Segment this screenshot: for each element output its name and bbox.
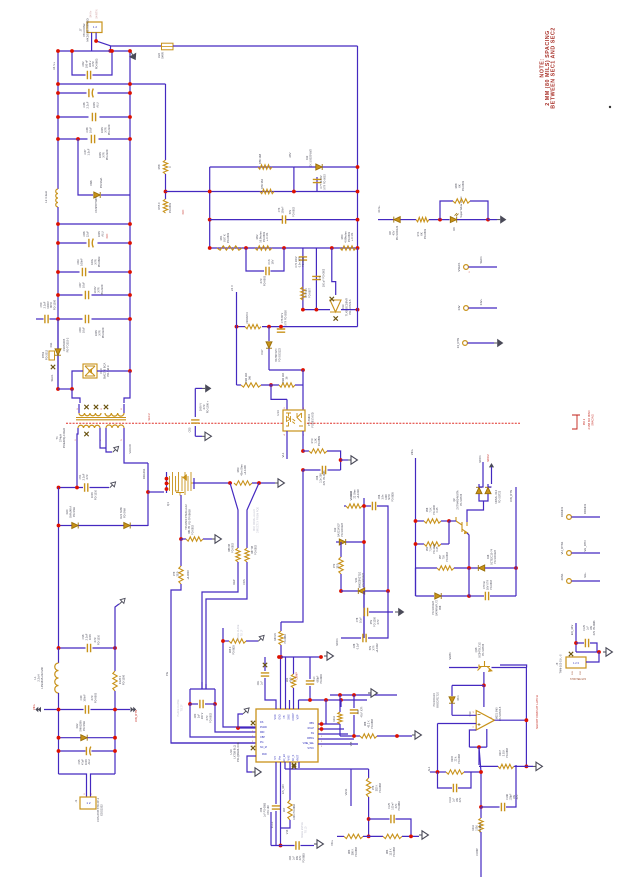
junction y568 rail: [514, 566, 518, 570]
svg-text:TMM-103-01-L-S: TMM-103-01-L-S: [559, 654, 562, 673]
wire FB pin: [285, 657, 287, 709]
junction y736 c85: [352, 734, 356, 738]
svg-text:PD-SOT23-5: PD-SOT23-5: [348, 299, 352, 315]
junction D22 right: [113, 736, 117, 740]
resistor R84 11.8K PD-0883: [383, 834, 402, 838]
wire opamp out: [495, 719, 527, 721]
ground J9: [603, 648, 612, 656]
svg-text:PD-0883: PD-0883: [317, 435, 321, 446]
resistor R126 0 PD-1206: [113, 671, 117, 691]
junction C60 left: [56, 317, 60, 321]
wire VCC2 drop: [491, 467, 493, 484]
junction J9 gnd: [597, 650, 601, 654]
wire feedback link: [469, 746, 486, 748]
wire EN_34V drop: [575, 623, 577, 652]
svg-text:24 V: 24 V: [230, 285, 234, 291]
svg-text:100V: 100V: [100, 127, 104, 133]
optocoupler U14 FOD817ASD PD-SMD4: [283, 410, 305, 431]
junction C51 left rail: [57, 486, 61, 490]
wire C84 row right: [301, 845, 315, 847]
svg-text:EN_EX: EN_EX: [283, 754, 286, 762]
svg-text:PD-0483: PD-0483: [458, 753, 461, 763]
junction VIN R98: [414, 519, 418, 523]
svg-text:PD-0603: PD-0603: [490, 579, 493, 589]
polarity mark T1 a: [84, 405, 88, 409]
svg-text:D21 SMD: D21 SMD: [119, 507, 123, 518]
svg-text:D96: D96: [89, 180, 93, 185]
wire LED row to gnd: [488, 219, 497, 221]
svg-text:PD-0883: PD-0883: [506, 747, 509, 757]
wire C36 right: [93, 647, 116, 649]
svg-text:+4-0402: +4-0402: [376, 643, 379, 653]
wire PAD to ground: [247, 756, 256, 772]
junction C46 left: [56, 91, 60, 95]
wire D10 to left: [72, 371, 83, 389]
svg-text:S#0R: S#0R: [160, 52, 164, 59]
svg-text:TPH1500 PSH9-LLX2: TPH1500 PSH9-LLX2: [184, 504, 188, 530]
wire T1 pin1 down to C51 rung: [77, 428, 78, 488]
DNP mark U10 DS: [251, 721, 255, 725]
wire DEP bus down: [202, 562, 238, 689]
svg-text:X7R: X7R: [202, 404, 206, 409]
svg-text:54 RTN: 54 RTN: [95, 9, 99, 18]
svg-text:TO 1F: TO 1F: [240, 629, 243, 636]
svg-text:47uF: 47uF: [80, 759, 84, 765]
w: [79, 413, 101, 416]
resistor R75 220R: [245, 324, 261, 328]
wire C80 left stub: [190, 703, 198, 705]
svg-text:1 2 3: 1 2 3: [573, 661, 579, 665]
svg-text:2000 V: 2000 V: [199, 403, 203, 411]
wire rung C60 left: [50, 318, 83, 320]
wire R215 left: [430, 771, 446, 773]
wire PG to U10 pin: [171, 742, 256, 744]
svg-text:D9: D9: [452, 227, 456, 231]
svg-text:R56 1K8: R56 1K8: [258, 153, 262, 164]
junction RCLP: [320, 727, 324, 731]
svg-text:PD-1210: PD-1210: [96, 634, 100, 645]
svg-text:X7R PD-0808: X7R PD-0808: [284, 310, 287, 326]
wire to D13 ref: [332, 248, 336, 295]
junction C46 right: [128, 91, 132, 95]
DNP mark C81: [263, 663, 267, 667]
wire LED row d: [457, 219, 488, 221]
DNP mark D11: [51, 365, 55, 369]
junction y309 b: [315, 308, 319, 312]
junction C66 left: [56, 241, 60, 245]
capacitor C118 1uF 16V X7R: [453, 784, 456, 792]
wire EN_EX stub: [284, 762, 286, 769]
wire J9 pin to gnd: [586, 652, 599, 662]
junction C63 right: [128, 270, 132, 274]
svg-text:VIN+: VIN+: [330, 840, 334, 846]
diode D96 PD-SMA: [94, 192, 100, 198]
wire R97 left: [416, 567, 438, 569]
junction C47 left: [56, 137, 60, 141]
junction rung1 left: [56, 49, 60, 53]
svg-text:PD-0603: PD-0603: [262, 231, 266, 242]
svg-text:C36: C36: [81, 634, 85, 639]
wire C80 box top: [190, 688, 215, 690]
shunt reference D13 TL431BCDBVR PD-SOT23-5: [330, 300, 341, 312]
wire Y-cap bottom: [194, 426, 196, 436]
svg-text:R55 0: R55 0: [157, 202, 161, 209]
junction VIN R90: [414, 542, 418, 546]
junction y657 left: [277, 655, 281, 659]
svg-text:RPRG: RPRG: [307, 737, 314, 740]
wire rail to D10: [97, 370, 130, 372]
wire Q1 drain right: [193, 482, 232, 484]
junction y385 mid: [269, 383, 273, 387]
junction y248 left: [208, 246, 212, 250]
wire in+ vertical: [437, 724, 439, 773]
svg-text:X7R: X7R: [85, 474, 89, 479]
wire C80 to U10 CBP: [215, 704, 256, 732]
junction C67 left: [56, 293, 60, 297]
svg-text:LX758 9LQ: LX758 9LQ: [232, 745, 236, 759]
w: [78, 425, 100, 428]
junction R215 right: [479, 770, 483, 774]
svg-text:TL431BCDBVR: TL431BCDBVR: [344, 298, 348, 316]
svg-text:PD-0220: PD-0220: [101, 327, 105, 338]
wire y695 line: [330, 694, 397, 696]
capacitor C98 3.9n 100V MPO PD-0805: [372, 502, 375, 510]
resistor R62 16.9kohm PD-0603: [255, 246, 272, 250]
svg-text:100V: 100V: [98, 152, 102, 158]
wire rung C47 left: [58, 138, 88, 140]
svg-text:PD-0883: PD-0883: [398, 801, 401, 811]
junction rung2 rail: [128, 82, 132, 86]
svg-text:X7R: X7R: [97, 330, 101, 335]
wire y248 line: [210, 247, 358, 249]
capacitor C38 0.1uF 50V X7R: [363, 634, 366, 642]
resistor R98 7.5K PD-1206: [424, 519, 441, 523]
svg-text:PD-2512: PD-2512: [44, 349, 48, 360]
svg-text:PD-0883: PD-0883: [479, 823, 482, 833]
junction C35 right: [113, 749, 117, 753]
wire drop to top rung: [110, 46, 112, 51]
wire ladder left rail upper: [57, 51, 59, 189]
capacitor C88 2.2n 25V X7R PD-0883: [322, 466, 325, 474]
wire ladder left rail lower: [57, 207, 59, 389]
wire FB upper: [280, 622, 282, 631]
wire R68 bypass left: [440, 201, 453, 220]
wire ladder rung 34V top: [58, 50, 130, 52]
svg-text:34 V+: 34 V+: [377, 205, 381, 213]
svg-text:COMP: COMP: [475, 848, 479, 856]
wire J9 top: [576, 651, 599, 653]
svg-text:NC_S: NC_S: [292, 754, 295, 761]
wire 24V vertical: [236, 292, 238, 385]
svg-text:Q1: Q1: [166, 502, 170, 506]
inductor L1 2.2uH LPE3815-222MR: [55, 663, 59, 693]
wire R90 right: [441, 543, 449, 545]
junction R79 R81: [179, 537, 183, 541]
ground U10 PAD: [252, 768, 261, 776]
junction Vss gnd row: [279, 844, 283, 848]
wire C59 stub left: [36, 318, 44, 320]
wire right rail lower: [357, 248, 359, 327]
wire R90 left: [416, 543, 425, 545]
svg-text:2.2uF: 2.2uF: [85, 101, 89, 108]
svg-text:C47: C47: [83, 149, 87, 154]
wire feedback up: [469, 730, 476, 747]
DNP mark D13 top: [330, 297, 334, 301]
junction rung2 left: [56, 82, 60, 86]
wire C188 right up: [506, 765, 516, 807]
svg-text:38.9: 38.9: [176, 571, 179, 576]
wire rung C66 left: [58, 242, 87, 244]
varistor U22 fuse box: [162, 43, 174, 50]
svg-text:PD-SOD123: PD-SOD123: [278, 347, 281, 362]
wire DRAIN1 vertical: [147, 463, 149, 526]
wire VIN rung right: [91, 709, 131, 711]
wire Q2 emitter down: [467, 533, 469, 568]
wire x326 down: [325, 700, 327, 724]
svg-text:HYST: HYST: [297, 754, 300, 761]
wire y736 right: [377, 735, 412, 737]
junction FB y657: [279, 655, 283, 659]
wire branch to arrow: [238, 714, 243, 728]
svg-text:100V: 100V: [88, 634, 92, 640]
diode D21 SMD PD-SMA: [124, 523, 130, 529]
junction R63 right: [257, 481, 261, 485]
capacitor C62 100nF X7R PD-0603: [87, 71, 90, 79]
page dot: [609, 106, 611, 108]
svg-text:SEC1: SEC1: [50, 374, 54, 382]
svg-text:R80 2K: R80 2K: [274, 633, 277, 641]
resistor R61 8.87K PD-0603: [217, 246, 242, 250]
transistor Q16 BC847BLT1G PD-SOT23: [478, 661, 492, 671]
svg-text:16V: 16V: [270, 259, 274, 264]
svg-text:2 MM ISO MISO: 2 MM ISO MISO: [587, 410, 591, 429]
wire VIN+ rail q2: [415, 458, 417, 596]
svg-text:AL1: AL1: [427, 766, 431, 771]
wire VHS1 drop: [350, 769, 352, 806]
svg-text:100nF: 100nF: [79, 258, 83, 266]
diode D14a BAT54 PD-SOT23: [476, 487, 482, 493]
wire C1N box right: [271, 248, 285, 271]
wire R218 lower: [339, 724, 341, 736]
wire base node left: [452, 684, 484, 686]
junction divider right: [409, 835, 413, 839]
wire C179 right down: [396, 819, 412, 836]
wire node down: [478, 747, 480, 765]
capacitor C85 47uF X7R: [350, 710, 358, 713]
svg-text:TO 2F: TO 2F: [180, 704, 183, 712]
wire y385 a: [237, 384, 242, 386]
capacitor C35 47uF 100V ALU: [86, 747, 90, 756]
resistor R72 38.9: [339, 557, 343, 574]
wire D20 left: [59, 525, 72, 527]
svg-text:C49: C49: [79, 695, 83, 700]
svg-text:VSP: VSP: [297, 714, 300, 719]
wire to transformer pin top-left: [72, 389, 80, 403]
svg-text:PD-SOT23: PD-SOT23: [482, 643, 485, 656]
wire rung2 34V to R58 branch: [58, 83, 166, 85]
net arrow U10 left: [241, 706, 251, 716]
wire lower left rail a: [58, 488, 60, 649]
net chevron VIN+: [35, 707, 41, 713]
isolation boundary red dashed line PRI/SEC: [66, 422, 520, 424]
wire tp VH+ stub: [571, 580, 600, 582]
svg-text:R216: R216: [333, 715, 336, 721]
wire to R81: [181, 538, 186, 540]
wire C1N box left: [246, 248, 264, 271]
wire y370 link: [269, 369, 303, 371]
junction rung224 left: [56, 222, 60, 226]
svg-text:DRAIN1: DRAIN1: [142, 468, 146, 479]
svg-text:D8: D8: [388, 231, 392, 235]
wire D14 bottoms join: [479, 494, 488, 501]
svg-text:PD-2220: PD-2220: [107, 124, 111, 135]
wire R63 to gnd: [252, 482, 275, 484]
junction x210 y192: [208, 190, 212, 194]
diode D22 SMAJ58A PD-SMA: [81, 735, 87, 741]
wire tp VH_RTN stub: [571, 552, 600, 554]
wire R72 down: [340, 574, 342, 591]
ground y657: [324, 652, 333, 660]
svg-text:100v: 100v: [90, 258, 94, 264]
svg-text:VHB1: VHB1: [448, 652, 452, 660]
svg-text:R58: R58: [157, 164, 161, 169]
svg-text:VCC1: VCC1: [335, 638, 339, 646]
wire D12 to R72: [340, 542, 342, 557]
wire rung C63 left: [58, 271, 80, 273]
capacitor C77 1n 16V X7R PD-0603: [313, 179, 321, 182]
junction D17 top: [267, 325, 271, 329]
svg-text:C1N: C1N: [267, 259, 271, 264]
junction R85 x223: [221, 639, 225, 643]
junction VAUX R104: [362, 504, 366, 508]
wire rail to C78: [363, 591, 365, 638]
svg-text:D13: D13: [341, 304, 345, 309]
ground Q1 source sense: [275, 479, 284, 487]
junction y370 right: [301, 368, 305, 372]
svg-text:+4-1206: +4-1206: [243, 465, 247, 475]
wire D61 top: [451, 685, 453, 696]
net arrow VAUX0: [111, 445, 121, 455]
wire rung C48 left: [58, 116, 89, 118]
svg-text:PD-0603: PD-0603: [302, 256, 305, 266]
svg-text:R67: R67: [283, 807, 286, 812]
wire y220 left: [210, 219, 283, 221]
wire opto pin3 down: [302, 431, 304, 451]
svg-text:C0F: C0F: [580, 670, 582, 675]
capacitor C84 1uF 26V X7R PD-0883: [296, 841, 299, 849]
wire C35 right: [92, 750, 116, 752]
wire U10 SS: [318, 733, 348, 735]
svg-text:10uF: 10uF: [81, 282, 85, 288]
resistor R104 22 Ohm: [346, 504, 362, 508]
wire U10 RCLP: [318, 728, 344, 730]
wire R97 right: [454, 567, 478, 569]
svg-text:PD-0883: PD-0883: [393, 846, 396, 856]
diode D20 SMAJ48A PD-SMA: [72, 523, 78, 529]
svg-text:X7R: X7R: [377, 619, 380, 624]
ground LED row: [497, 215, 506, 223]
svg-text:43m Ohm: 43m Ohm: [239, 464, 243, 475]
svg-text:DRAIN1: DRAIN1: [560, 506, 564, 517]
svg-text:C51: C51: [78, 474, 82, 479]
svg-text:PD-SOT23: PD-SOT23: [498, 490, 501, 503]
wire R217 left stub: [479, 765, 498, 767]
net arrow DRAIN return: [117, 597, 127, 607]
ground opto emitter: [348, 456, 357, 464]
wire to R73: [303, 450, 309, 452]
resistor R73 1.2K PD-0883: [309, 449, 327, 453]
junction emitter y568: [467, 566, 471, 570]
svg-text:R71: R71: [416, 231, 420, 236]
svg-text:PD-TPV8008: PD-TPV8008: [187, 509, 191, 525]
resistor R82 49.9: [291, 674, 295, 688]
svg-text:1.2K: 1.2K: [313, 438, 317, 444]
wire VR1 left: [341, 590, 358, 592]
junction R98 base: [447, 519, 451, 523]
wire bottom left to J1: [59, 774, 87, 797]
svg-text:C63: C63: [76, 259, 80, 264]
svg-text:PD-SMD4: PD-SMD4: [307, 414, 311, 426]
svg-text:6K: 6K: [419, 232, 423, 235]
wire VIN_RTN rail: [515, 487, 517, 596]
resistor R217 3.01K PD-0883: [498, 764, 514, 768]
wire D14 to Q2 collector: [467, 501, 484, 522]
capacitor C78 10uF 25V X7R PD-1206: [364, 608, 367, 616]
junction rail D10: [128, 369, 132, 373]
svg-text:100 v: 100 v: [88, 60, 92, 67]
wire left rail to bottom: [57, 319, 59, 389]
svg-text:PD-SMA: PD-SMA: [99, 178, 103, 189]
svg-text:C60: C60: [78, 327, 82, 332]
wire R104 to C98: [362, 505, 371, 507]
wire R73 corner down: [327, 451, 341, 470]
capacitor C67 10uF PD-2220: [85, 291, 88, 299]
svg-text:PD-1206: PD-1206: [121, 674, 125, 685]
junction VBN: [320, 722, 324, 726]
junction y736: [395, 734, 399, 738]
wire R216 upper: [480, 807, 482, 818]
junction LED left: [438, 218, 442, 222]
wire VH corner to rail: [500, 665, 527, 668]
svg-text:10 8V: 10 8V: [93, 286, 97, 293]
svg-text:PD-0603: PD-0603: [446, 551, 449, 561]
junction Q1 gate c: [165, 487, 169, 491]
svg-text:PD-0803: PD-0803: [231, 542, 234, 552]
junction C62 right top: [110, 49, 114, 53]
wire to ground R73: [341, 459, 348, 461]
wire sense DEP upper: [230, 483, 238, 548]
svg-text:R62: R62: [255, 234, 259, 239]
svg-text:+-0.1%: +-0.1%: [350, 232, 354, 241]
wire D14 tops join: [479, 484, 483, 487]
wire tp DRAIN1 stub: [571, 516, 600, 518]
svg-text:C48: C48: [85, 127, 89, 132]
diode D61 MMSD701T1G PD-SOD123: [449, 697, 455, 703]
svg-text:SMAJ58A: SMAJ58A: [78, 720, 82, 732]
wire C62 box right: [93, 51, 113, 75]
wire C84 row left: [271, 845, 295, 847]
junction feedback node: [477, 745, 481, 749]
wire C38 left: [341, 637, 361, 639]
wire U10 RPRG: [318, 738, 354, 740]
wire D21 right: [131, 525, 149, 527]
wire branch x165 mid: [165, 174, 167, 199]
wire bottom right to J1: [91, 774, 116, 797]
wire rung C67 left: [58, 294, 83, 296]
svg-text:PD-0603: PD-0603: [95, 58, 99, 69]
junction C62 left top: [70, 49, 74, 53]
wire D14b top: [487, 484, 489, 487]
